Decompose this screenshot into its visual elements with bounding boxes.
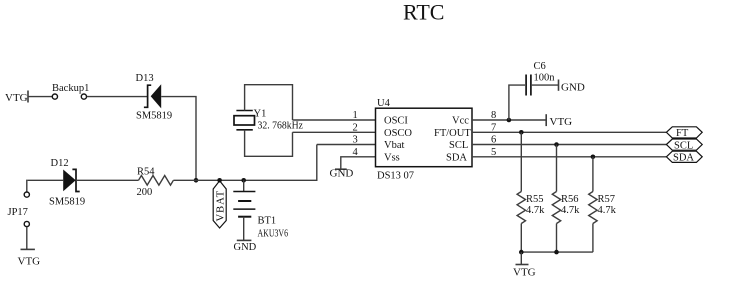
svg-text:BT1: BT1 [258,216,277,227]
diode D12 (SM5819, anode left) [49,158,85,208]
svg-text:100n: 100n [534,73,556,84]
svg-text:GND: GND [561,81,585,93]
net flag FT [666,127,702,139]
wire crystal top loop to OSCI pin 1 [245,85,293,120]
jumper Backup1 [52,83,89,99]
svg-text:VTG: VTG [513,267,536,279]
svg-text:1: 1 [353,110,358,121]
wire D13 to corner, down to bottom row [161,97,196,181]
diode D13 (SM5819, cathode left) [136,73,173,122]
wire Backup1 to D13 [87,96,148,98]
node junction VBAT flag [217,178,222,183]
svg-text:7: 7 [491,122,496,133]
svg-text:FT/OUT: FT/OUT [434,128,471,139]
svg-text:SCL: SCL [674,140,693,151]
port VTG (pull-ups) [513,252,536,279]
svg-text:VTG: VTG [5,92,28,104]
net flag SCL [666,139,702,151]
net label VBAT flag [213,181,226,228]
svg-text:8: 8 [491,110,496,121]
capacitor C6 100n [526,61,555,96]
svg-text:5: 5 [491,147,496,158]
svg-text:SDA: SDA [446,152,467,163]
svg-text:D13: D13 [136,73,154,84]
svg-text:C6: C6 [534,61,546,72]
svg-text:4.7k: 4.7k [598,205,617,216]
svg-text:4.7k: 4.7k [561,205,580,216]
svg-text:R55: R55 [526,194,544,205]
crystal Y1 32.768kHz [234,109,303,132]
wire D12 to R54 [76,179,139,181]
svg-text:3: 3 [353,135,358,146]
svg-text:U4: U4 [377,98,391,109]
node junction bus R55 [519,250,524,255]
wire C6 to GND [532,84,559,86]
resistor R55 4.7k [517,132,545,252]
svg-text:JP17: JP17 [8,207,28,218]
svg-text:AKU3V6: AKU3V6 [258,229,289,240]
wire pin 1 OSCI [293,110,376,121]
port VTG (bottom left) [18,227,41,268]
svg-text:D12: D12 [51,158,69,169]
svg-text:Y1: Y1 [254,109,267,120]
svg-text:SM5819: SM5819 [49,197,85,208]
node junction R56 [554,142,559,147]
ground GND (pin 4) [330,168,354,180]
wire resistor bottom bus [521,251,593,253]
node junction D13/R54 [194,178,199,183]
svg-text:GND: GND [234,242,257,253]
svg-text:R54: R54 [137,167,155,178]
port GND (C6) [559,80,585,94]
resistor R57 4.7k [589,157,617,252]
svg-text:Vbat: Vbat [384,140,404,151]
svg-text:SDA: SDA [673,153,694,164]
port GND (battery) [234,240,257,253]
wire pin 4 Vss to ground [341,147,376,169]
port VTG (top left) [5,91,28,105]
node junction C6 riser [507,118,512,123]
svg-text:Vss: Vss [384,152,400,163]
svg-text:OSCO: OSCO [384,128,412,139]
svg-text:DS13 07: DS13 07 [377,170,414,181]
svg-text:SCL: SCL [449,140,468,151]
wire pin 7 FT/OUT to FT flag [472,122,666,133]
title RTC [403,0,444,25]
wire R54 to Vbat riser [173,145,316,181]
wire pin 5 SDA to SDA flag [472,147,666,158]
op IC U4 DS1307 [376,98,473,181]
svg-text:RTC: RTC [403,0,444,25]
svg-text:R56: R56 [561,194,579,205]
node junction R55 [519,130,524,135]
svg-text:Vcc: Vcc [452,116,469,127]
wire pin 6 SCL to SCL flag [472,135,666,146]
wire riser to C6 [509,85,525,120]
wire VTG to Backup1 [28,96,52,98]
node junction R57 [591,155,596,160]
svg-text:6: 6 [491,135,496,146]
wire JP17 to D12 [28,179,63,181]
svg-text:FT: FT [676,128,689,139]
wire crystal bottom loop to OSCO pin 2 [245,130,293,157]
port VTG (pin 8) [546,114,572,128]
svg-text:OSCI: OSCI [384,116,408,127]
wire pin 8 Vcc to VTG [472,110,546,121]
svg-text:VTG: VTG [550,116,573,128]
resistor R56 4.7k [552,145,580,253]
svg-text:R57: R57 [598,194,616,205]
svg-text:GND: GND [330,168,354,180]
wire pin 3 Vbat [317,135,376,146]
svg-text:200: 200 [137,187,153,198]
svg-text:VBAT: VBAT [215,190,226,222]
svg-text:32. 768kHz: 32. 768kHz [258,120,304,131]
net flag SDA [666,151,702,163]
svg-text:2: 2 [353,122,358,133]
node junction bus R56 [554,250,559,255]
node junction battery [241,178,246,183]
svg-text:VTG: VTG [18,256,41,268]
wire pin 2 OSCO [293,122,376,133]
svg-text:Backup1: Backup1 [52,83,89,94]
jumper JP17 [8,180,30,226]
svg-text:4: 4 [353,147,359,158]
battery BT1 AKU3V6 [233,180,288,240]
svg-text:SM5819: SM5819 [136,111,172,122]
resistor R54 200 [137,167,174,199]
svg-text:4.7k: 4.7k [526,205,545,216]
